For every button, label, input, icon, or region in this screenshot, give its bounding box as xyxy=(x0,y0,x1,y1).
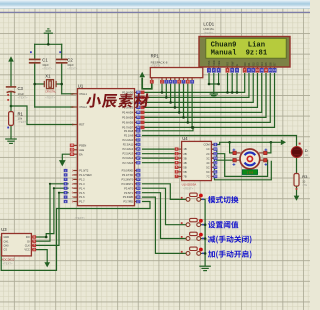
U1 pin number box 29 xyxy=(70,144,74,148)
capacitor C1 xyxy=(30,58,40,60)
svg-text:D7: D7 xyxy=(273,62,277,66)
U4 pin 16 1C xyxy=(211,148,214,150)
svg-text:P2.6/A14: P2.6/A14 xyxy=(123,156,134,160)
U1 pin 10 P3.0/RXD xyxy=(135,170,138,172)
svg-text:P3.7/RD: P3.7/RD xyxy=(123,200,133,204)
svg-text:7B: 7B xyxy=(183,175,186,179)
U1 pin 29 PSEN xyxy=(74,144,78,146)
svg-text:D2: D2 xyxy=(251,62,255,66)
wire XTAL1 net to U1 xyxy=(62,93,74,95)
net label box P0.2 xyxy=(141,101,145,105)
U1 pin number box 5 xyxy=(64,187,68,190)
wire data bus P0.3 to LCD D3 xyxy=(145,74,258,108)
RP1 pin 5 xyxy=(174,78,176,80)
U1 pin 24 P2.3/A11 xyxy=(135,143,138,145)
svg-text:<TEXT>: <TEXT> xyxy=(203,31,213,35)
svg-text:4C: 4C xyxy=(206,161,209,165)
wire RST net: node to U1 RST pin xyxy=(11,106,74,125)
svg-text:ADC0832: ADC0832 xyxy=(1,257,14,261)
svg-text:3C: 3C xyxy=(206,156,209,160)
svg-text:P3.6/WR: P3.6/WR xyxy=(123,195,134,199)
U1 pin 4 P1.3 xyxy=(74,183,78,185)
svg-text:VSS: VSS xyxy=(207,60,211,65)
svg-text:10: 10 xyxy=(302,179,305,183)
wire P2.5 to ULN 2B xyxy=(143,153,175,155)
svg-text:U4: U4 xyxy=(182,136,188,141)
svg-text:C1: C1 xyxy=(42,58,48,63)
motor value display xyxy=(242,170,257,175)
U4 pin 5 5B xyxy=(179,166,182,168)
svg-text:2C: 2C xyxy=(206,152,209,156)
wire P3.7 loop to ADC left side xyxy=(1,202,150,271)
power VCC arrow (respack) xyxy=(139,72,145,77)
U1 pin number box 8 xyxy=(64,200,68,203)
U4 pin 15 2C xyxy=(211,153,214,155)
power VCC arrow (motor rail, right-pointing) xyxy=(281,140,286,146)
svg-text:VDD: VDD xyxy=(212,60,216,66)
svg-text:D0: D0 xyxy=(243,62,247,66)
svg-text:RW: RW xyxy=(230,61,234,66)
svg-text:P1.6: P1.6 xyxy=(79,195,85,199)
svg-text:U1: U1 xyxy=(78,84,84,89)
svg-text:GND: GND xyxy=(3,235,9,239)
wire R1 to ground xyxy=(10,125,12,138)
wire P3.6 to button K4 xyxy=(143,197,187,253)
label K2 xyxy=(208,221,238,228)
wire LCD RW drop xyxy=(231,74,233,93)
wire buttons common bus to ground xyxy=(201,199,205,265)
wire respack pin 6 drop xyxy=(178,84,180,112)
U3 pin CLK xyxy=(31,244,33,246)
junction C3/R1 node xyxy=(10,105,13,108)
U1 pin 37 P0.2/AD2 xyxy=(135,101,138,103)
svg-text:7C: 7C xyxy=(206,175,209,179)
U4 pin 14 3C xyxy=(211,157,214,159)
capacitor C3 xyxy=(7,86,16,88)
U1 pin 17 P3.7/RD xyxy=(135,201,138,203)
svg-text:<TEXT>: <TEXT> xyxy=(75,216,86,220)
RP1 pin 3 xyxy=(165,78,167,80)
svg-text:<TEXT>: <TEXT> xyxy=(67,66,77,70)
U1 pin number box 31 xyxy=(70,152,74,156)
ground arrow (ADC) xyxy=(44,262,50,267)
U1 pin 5 P1.4 xyxy=(74,187,78,189)
wire XTAL2 net to U1 xyxy=(35,106,74,108)
svg-text:5B: 5B xyxy=(183,165,186,169)
U3 pin DO xyxy=(31,236,33,238)
U1 pin 8 P1.7 xyxy=(74,201,78,203)
label K1 xyxy=(208,196,239,203)
U1 pin number box 1 xyxy=(64,169,68,172)
svg-text:CS: CS xyxy=(3,248,7,252)
U1 pin 23 P2.2/A10 xyxy=(135,139,138,141)
svg-text:D6: D6 xyxy=(268,62,272,66)
U4 pin 11 6C xyxy=(211,171,214,173)
svg-text:ULN2003A: ULN2003A xyxy=(182,183,197,187)
wire LCD VSS/VDD/VEE to ground xyxy=(208,74,210,84)
U1 pin 18 XTAL2 xyxy=(74,106,78,108)
sheet border xyxy=(0,11,310,13)
power VCC arrow (left) xyxy=(8,56,14,61)
U4 pin 6 6B xyxy=(179,171,182,173)
svg-text:X1: X1 xyxy=(45,74,51,79)
U4 pin 9 COM xyxy=(211,144,214,146)
wire P1.5 to ADC CLK xyxy=(36,193,68,246)
push button K3 xyxy=(186,237,190,241)
svg-text:CH1: CH1 xyxy=(3,239,9,243)
push button K2 xyxy=(186,223,190,227)
svg-text:C2: C2 xyxy=(67,58,73,63)
RP1 pin 2 xyxy=(161,78,163,80)
ground (below R1) xyxy=(6,138,16,140)
U4 pin 4 4B xyxy=(179,162,182,164)
wire crystal left lead xyxy=(35,83,45,85)
wire P2.6 to ULN 3B xyxy=(143,157,175,159)
svg-text:Lian: Lian xyxy=(248,42,265,50)
wire data bus P0.2 to LCD D2 xyxy=(145,74,254,103)
svg-text:P3.0/RXD: P3.0/RXD xyxy=(122,169,134,173)
resistor R1 xyxy=(9,112,14,126)
svg-text:P0.6/AD6: P0.6/AD6 xyxy=(122,121,134,125)
wire data bus P0.6 to LCD D6 xyxy=(145,74,271,123)
U1 pin 22 P2.1/A9 xyxy=(135,134,138,136)
svg-text:1C: 1C xyxy=(206,147,209,151)
wire C3 to R1 (node RST divider) xyxy=(10,92,12,112)
svg-text:<TEXT>: <TEXT> xyxy=(18,96,28,100)
svg-text:DI: DI xyxy=(27,239,30,243)
net label box P0.3 xyxy=(141,106,145,110)
svg-text:10k: 10k xyxy=(18,116,23,120)
net label box P0.6 xyxy=(141,121,145,125)
U1 pin 6 P1.5 xyxy=(74,192,78,194)
svg-text:P2.2/A10: P2.2/A10 xyxy=(123,138,134,142)
net label box P0.7 xyxy=(141,126,145,130)
wire respack pin 8 drop xyxy=(187,84,189,122)
U1 pin 34 P0.5/AD5 xyxy=(135,116,138,118)
svg-text:P1.7: P1.7 xyxy=(79,200,85,204)
U4 pin 2 2B xyxy=(179,153,182,155)
U1 pin 1 P1.0/T2 xyxy=(74,170,78,172)
wire ULN 2C to motor lower-right terminal (under motor) xyxy=(212,154,268,177)
watermark text xyxy=(86,93,150,107)
svg-text:P0.7/AD7: P0.7/AD7 xyxy=(122,126,134,130)
wire P1.4 to ADC DO xyxy=(36,188,68,237)
U4 pin 1 1B xyxy=(179,148,182,150)
RP1 pin 8 xyxy=(187,78,189,80)
svg-text:<TEXT>: <TEXT> xyxy=(42,66,52,70)
svg-text:1B: 1B xyxy=(183,147,186,151)
U1 pin 39 P0.0/AD0 xyxy=(135,91,138,93)
svg-text:RS: RS xyxy=(226,62,230,66)
U1 pin number box 6 xyxy=(64,191,68,194)
U1 pin 28 P2.7/A15 xyxy=(135,162,138,164)
svg-text:VCC: VCC xyxy=(24,248,30,252)
svg-text:6C: 6C xyxy=(206,170,209,174)
svg-text:P1.3: P1.3 xyxy=(79,182,85,186)
wire respack pin 9 drop xyxy=(191,84,193,127)
wire P2.4 to ULN 1B xyxy=(143,148,175,150)
U1 pin 21 P2.0/A8 xyxy=(135,130,138,132)
wire LED to R3 xyxy=(296,158,298,174)
svg-text:<TEXT>: <TEXT> xyxy=(18,120,28,124)
push button K1 xyxy=(186,198,190,202)
svg-text:D5: D5 xyxy=(264,62,268,66)
RP1 pin 6 xyxy=(178,78,180,80)
U4 pin 12 5C xyxy=(211,166,214,168)
U1 pin 9 RST xyxy=(74,124,78,126)
svg-text:<TEXT>: <TEXT> xyxy=(3,261,13,265)
svg-text:LCD1: LCD1 xyxy=(203,21,214,26)
wire R3 to ground arrow xyxy=(296,186,298,195)
U1 pin number box 30 xyxy=(70,148,74,152)
svg-text:P1.2: P1.2 xyxy=(79,178,85,182)
LED D1 xyxy=(291,147,302,158)
svg-text:P0.4/AD4: P0.4/AD4 xyxy=(122,111,134,115)
wire ULN COM to motor supply rail xyxy=(212,142,281,144)
ground (LCD supply) xyxy=(210,93,217,95)
svg-text:XTAL1: XTAL1 xyxy=(79,92,87,96)
U4 pin 7 7B xyxy=(179,175,182,177)
svg-text:<TEXT>: <TEXT> xyxy=(183,186,193,190)
wire LCD RS drop xyxy=(227,74,229,93)
U4 pin 3 3B xyxy=(179,157,182,159)
wire C2 leg / XTAL1 net xyxy=(61,44,63,59)
wire respack pin 2 drop xyxy=(161,84,163,92)
svg-text:Manual: Manual xyxy=(211,50,238,58)
RP1 pin 9 xyxy=(191,78,193,80)
svg-text:RST: RST xyxy=(79,123,85,127)
motor terminal lower-right xyxy=(264,159,267,162)
U3 pin VCC xyxy=(31,249,33,251)
wire P1.3 to ADC DI xyxy=(36,184,68,241)
U1 pin 15 P3.5/T1 xyxy=(135,192,138,194)
wire rail to motor upper-left terminal xyxy=(230,142,233,153)
ground (above crystal caps, inverted) xyxy=(44,32,52,34)
U1 pin number box 7 xyxy=(64,196,68,199)
svg-text:P1.0/T2: P1.0/T2 xyxy=(79,169,89,173)
svg-text:DO: DO xyxy=(26,235,30,239)
svg-text:P1.1/T2EX: P1.1/T2EX xyxy=(79,173,92,177)
U1 pin 12 P3.2/INT0 xyxy=(135,178,138,180)
ground (buttons) xyxy=(200,265,210,267)
svg-text:1 8 8: 1 8 8 xyxy=(247,171,254,175)
svg-text:ALE: ALE xyxy=(79,148,84,152)
wire P2.7 to ULN 4B xyxy=(143,162,175,164)
net label box P0.1 xyxy=(141,96,145,100)
U1 pin 33 P0.6/AD6 xyxy=(135,121,138,123)
U1 pin 2 P1.1/T2EX xyxy=(74,174,78,176)
svg-text:LE: LE xyxy=(305,153,308,157)
svg-text:P1.4: P1.4 xyxy=(79,186,85,190)
RP1 pin 7 xyxy=(183,78,185,80)
svg-text:<TE: <TE xyxy=(302,183,307,187)
U1 pin 16 P3.6/WR xyxy=(135,196,138,198)
svg-text:P2.7/A15: P2.7/A15 xyxy=(123,161,134,165)
wire respack pin 3 drop xyxy=(165,84,167,97)
svg-text:U3: U3 xyxy=(1,227,7,232)
svg-text:P2.1/A9: P2.1/A9 xyxy=(124,133,134,137)
motor terminal upper-left xyxy=(233,151,236,154)
wire VCC to C3 xyxy=(10,64,12,87)
motor terminal upper-right xyxy=(264,151,267,154)
svg-text:PSEN: PSEN xyxy=(79,144,86,148)
LCD screen xyxy=(206,38,286,58)
U1 pin 19 XTAL1 xyxy=(74,93,78,95)
wire crystal top rail xyxy=(35,43,62,45)
svg-text:COM: COM xyxy=(204,143,210,147)
svg-text:P3.5/T1: P3.5/T1 xyxy=(124,191,134,195)
RP1 pin 4 xyxy=(170,78,172,80)
svg-text:P2.4/A12: P2.4/A12 xyxy=(123,147,134,151)
wire ULN 1C to motor lower-left terminal xyxy=(212,149,233,160)
svg-text:Chuan9: Chuan9 xyxy=(211,42,237,50)
svg-text:P2.0/A8: P2.0/A8 xyxy=(124,129,134,133)
svg-text:6B: 6B xyxy=(183,170,186,174)
net label box P0.0 xyxy=(141,91,145,95)
U1 pin 27 P2.6/A14 xyxy=(135,157,138,159)
svg-text:CLK: CLK xyxy=(25,244,30,248)
push button K4 xyxy=(186,252,190,256)
U1 pin 36 P0.3/AD3 xyxy=(135,106,138,108)
svg-text:P3.2/INT0: P3.2/INT0 xyxy=(122,177,134,181)
svg-text:P1.5: P1.5 xyxy=(79,191,85,195)
label K4 xyxy=(208,250,252,258)
U4 pin 13 4C xyxy=(211,162,214,164)
svg-text:P3.3/INT1: P3.3/INT1 xyxy=(122,182,134,186)
net label box P0.5 xyxy=(141,116,145,120)
svg-text:R3: R3 xyxy=(302,174,308,179)
U1 pin 30 ALE xyxy=(74,149,78,151)
U1 pin number box 2 xyxy=(64,173,68,176)
svg-text:P3.1/TXD: P3.1/TXD xyxy=(122,173,133,177)
svg-text:4B: 4B xyxy=(183,161,186,165)
svg-text:P0.5/AD5: P0.5/AD5 xyxy=(122,116,134,120)
U1 pin 13 P3.3/INT1 xyxy=(135,183,138,185)
wire P2.0 net xyxy=(143,127,194,130)
U1 pin number box 3 xyxy=(64,178,68,181)
svg-text:VEE: VEE xyxy=(217,60,221,65)
svg-text:P3.4/T0: P3.4/T0 xyxy=(124,186,134,190)
wire crystal right lead xyxy=(56,83,62,85)
wire C1 leg / XTAL2 net xyxy=(34,44,36,59)
svg-text:XTAL2: XTAL2 xyxy=(79,105,87,109)
svg-text:D3: D3 xyxy=(256,62,260,66)
U1 pin 14 P3.4/T0 xyxy=(135,187,138,189)
wire data bus P0.5 to LCD D5 xyxy=(145,74,266,118)
U1 pin 35 P0.4/AD4 xyxy=(135,111,138,113)
U1 pin 3 P1.2 xyxy=(74,178,78,180)
svg-text:E: E xyxy=(235,64,239,66)
wire EA pin xyxy=(62,154,74,160)
svg-text:CRYSTAL: CRYSTAL xyxy=(45,90,56,93)
wire respack pin 7 drop xyxy=(183,84,185,117)
svg-text:3B: 3B xyxy=(183,156,186,160)
U1 pin 26 P2.5/A13 xyxy=(135,153,138,155)
svg-text:P2.5/A13: P2.5/A13 xyxy=(123,152,134,156)
U1 pin number box 4 xyxy=(64,182,68,185)
svg-text:P2.3/A11: P2.3/A11 xyxy=(123,143,134,147)
U1 pin 32 P0.7/AD7 xyxy=(135,126,138,128)
label K3 xyxy=(208,235,251,243)
wire respack common to VCC xyxy=(142,79,152,89)
svg-text:D4: D4 xyxy=(260,62,264,66)
capacitor C2 xyxy=(57,58,67,60)
ground arrow (R3) xyxy=(294,196,300,201)
wire respack pin 4 drop xyxy=(170,84,172,102)
svg-text:5C: 5C xyxy=(206,165,209,169)
U1 pin 25 P2.4/A12 xyxy=(135,148,138,150)
svg-text:2B: 2B xyxy=(183,152,186,156)
RP1 pin 1 xyxy=(151,78,153,80)
U1 pin 11 P3.1/TXD xyxy=(135,174,138,176)
svg-text:10uF: 10uF xyxy=(18,92,25,96)
net label box P0.4 xyxy=(141,111,145,115)
wire data bus P0.1 to LCD D1 xyxy=(145,74,249,98)
wire P3.3 to button K1 xyxy=(143,184,187,200)
ground arrow (EA) xyxy=(59,160,66,166)
motor M1 (stepper) xyxy=(240,149,260,169)
svg-text:EA: EA xyxy=(79,152,83,156)
U1 pin 31 EA xyxy=(74,153,78,155)
wire P3.4 to button K2 xyxy=(143,188,187,225)
wire data bus P0.0 to LCD D0 xyxy=(145,74,245,93)
wire ULN 3C loop (outer, under motor) xyxy=(212,158,272,180)
U1 pin 7 P1.6 xyxy=(74,196,78,198)
svg-text:C3: C3 xyxy=(18,86,24,91)
wire ADC VCC to ground arrow xyxy=(36,250,47,262)
U1 pin 38 P0.1/AD1 xyxy=(135,96,138,98)
motor terminal lower-left xyxy=(233,159,236,162)
wire P3.5 to button K3 xyxy=(143,193,187,239)
wire P2.1 to LED D1 xyxy=(143,136,297,147)
svg-text:9z:81: 9z:81 xyxy=(246,50,268,58)
wire LCD E drop xyxy=(236,74,238,93)
U4 pin 10 7C xyxy=(211,175,214,177)
svg-text:<TEXT>: <TEXT> xyxy=(45,96,55,100)
wire respack pin 5 drop xyxy=(174,84,176,107)
svg-text:30pF: 30pF xyxy=(67,63,74,67)
wire data bus P0.4 to LCD D4 xyxy=(145,74,262,113)
svg-text:RP1: RP1 xyxy=(151,54,160,59)
U3 pin DI xyxy=(31,240,33,242)
svg-text:30pF: 30pF xyxy=(42,63,49,67)
wire rail to motor upper-right terminal xyxy=(267,142,271,153)
svg-text:LM016L: LM016L xyxy=(203,27,214,31)
resistor R3 xyxy=(294,174,299,187)
wire data bus P0.7 to LCD D7 xyxy=(145,74,275,128)
svg-text:D: D xyxy=(305,148,308,153)
svg-text:P0.0/AD0: P0.0/AD0 xyxy=(122,91,134,95)
svg-text:D1: D1 xyxy=(247,62,251,66)
svg-text:CH0: CH0 xyxy=(3,244,9,248)
